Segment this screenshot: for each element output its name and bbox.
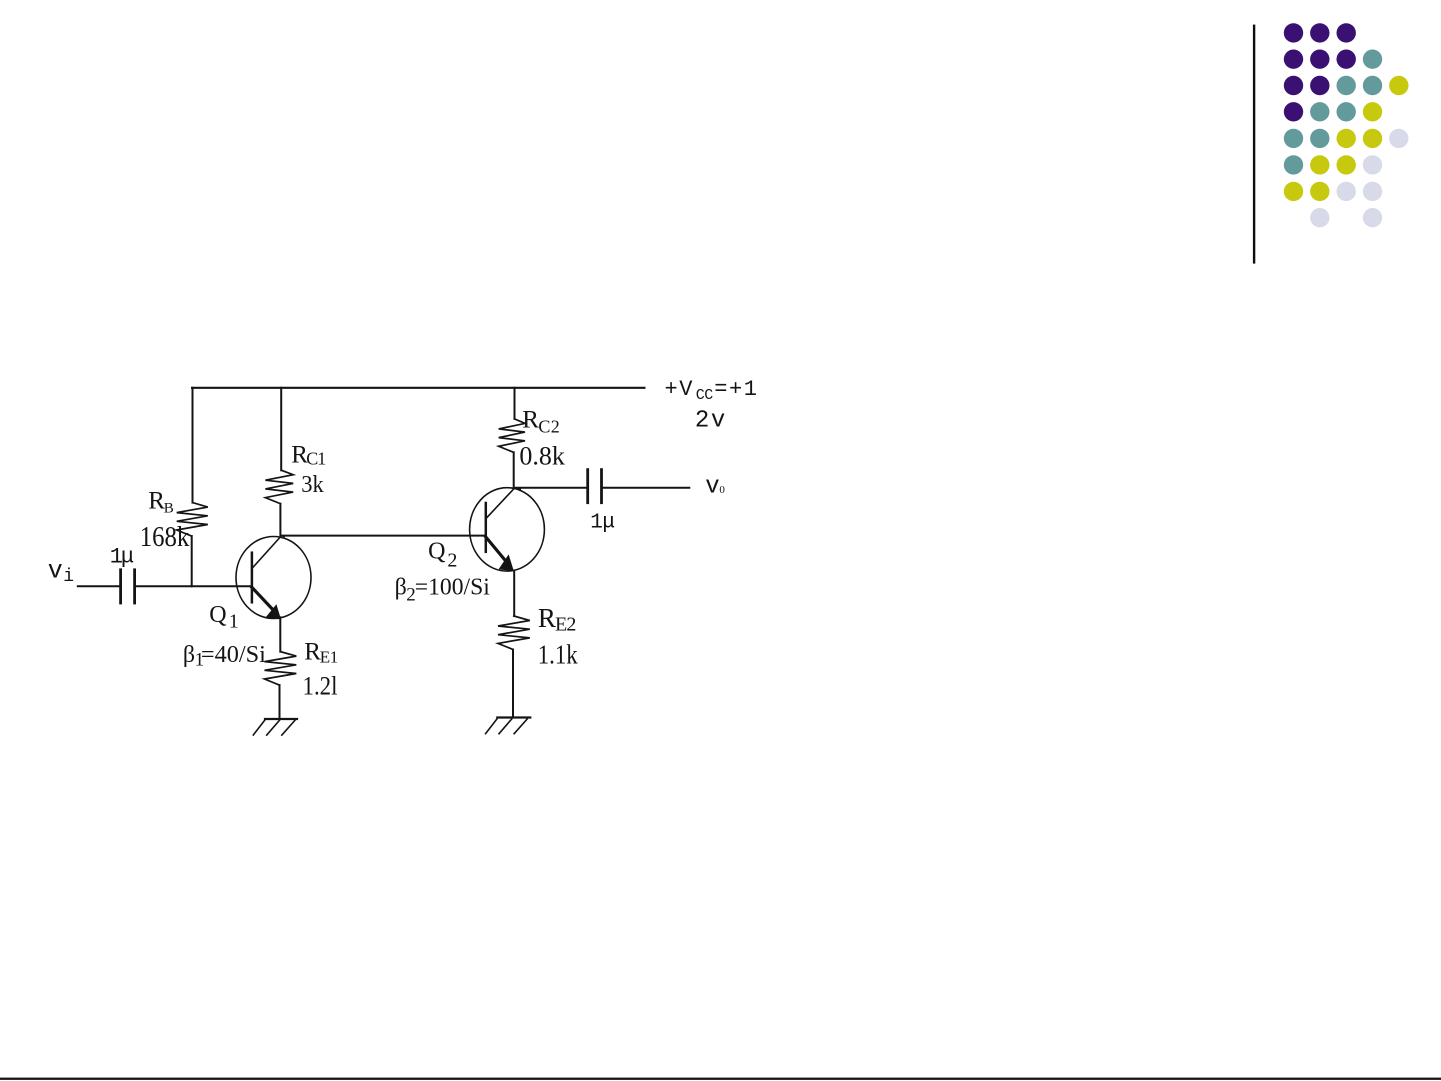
wire RB to base node bbox=[191, 536, 193, 586]
decorative dots row 7 bbox=[1284, 182, 1303, 201]
wire cap to Q1 base bbox=[136, 585, 252, 587]
svg-text:R: R bbox=[522, 407, 539, 434]
decorative dots row 8 bbox=[1310, 208, 1329, 227]
wire Q1 emitter down bbox=[279, 617, 281, 651]
svg-text:=40/Si: =40/Si bbox=[201, 642, 266, 668]
transistor Q1 base bar bbox=[251, 553, 254, 603]
decorative vertical rule (top right) bbox=[1253, 25, 1255, 264]
wire input from vi bbox=[78, 585, 119, 587]
svg-text:B: B bbox=[164, 501, 174, 517]
wire RE2 to ground bbox=[512, 650, 514, 718]
capacitor C2 output 1u left plate bbox=[586, 470, 589, 503]
transistor Q1 emitter arrowhead bbox=[265, 604, 281, 619]
svg-text:v: v bbox=[705, 473, 719, 500]
node junction artifact Q2 collector bbox=[515, 487, 521, 490]
svg-text:Q: Q bbox=[209, 602, 226, 628]
transistor Q2 base bar bbox=[485, 503, 488, 552]
transistor Q2 circle bbox=[470, 488, 545, 571]
svg-text:3k: 3k bbox=[301, 472, 324, 498]
svg-text:R: R bbox=[538, 603, 556, 633]
ground G1 bar bbox=[265, 718, 297, 720]
capacitor C2 output 1u right plate bbox=[600, 470, 603, 503]
svg-text:2v: 2v bbox=[695, 408, 727, 435]
svg-text:1.1k: 1.1k bbox=[538, 639, 578, 669]
svg-text:v: v bbox=[48, 557, 63, 586]
svg-text:C2: C2 bbox=[538, 416, 560, 436]
svg-text:β: β bbox=[395, 575, 407, 601]
transistor Q1 collector stroke bbox=[252, 536, 281, 568]
svg-text:CC: CC bbox=[696, 387, 713, 404]
svg-text:E2: E2 bbox=[555, 614, 575, 636]
wire rail to RC1 bbox=[280, 388, 282, 470]
svg-text:β: β bbox=[183, 642, 195, 668]
transistor Q2 collector stroke bbox=[486, 488, 515, 519]
svg-text:0: 0 bbox=[719, 484, 725, 496]
node junction artifact Q1 collector bbox=[279, 535, 285, 538]
ground G2 hatch 3 bbox=[514, 719, 527, 734]
wire output to v0 bbox=[603, 487, 689, 489]
resistor RE2 1.1k bbox=[498, 616, 530, 650]
svg-text:1μ: 1μ bbox=[590, 512, 614, 535]
wire interstage Q1 collector to Q2 base bbox=[281, 535, 486, 537]
svg-text:1: 1 bbox=[229, 611, 239, 633]
svg-text:R: R bbox=[304, 638, 321, 665]
wire Vcc top rail bbox=[192, 387, 644, 389]
resistor RC1 3k bbox=[265, 470, 293, 504]
decorative dots row 4 bbox=[1284, 102, 1303, 121]
svg-text:E1: E1 bbox=[320, 648, 338, 667]
svg-text:1μ: 1μ bbox=[110, 544, 134, 569]
capacitor C1 input 1u left plate bbox=[119, 570, 122, 603]
svg-text:0.8k: 0.8k bbox=[519, 441, 565, 470]
wire RC1 to Q1 collector node bbox=[279, 504, 281, 536]
decorative dots row 1 bbox=[1284, 23, 1303, 42]
ground G2 bar bbox=[497, 716, 530, 718]
wire Q2 collector node to output cap bbox=[515, 487, 587, 489]
capacitor C1 input 1u right plate bbox=[133, 570, 136, 603]
svg-text:1.2l: 1.2l bbox=[303, 672, 338, 701]
wire rail to RB bbox=[192, 388, 194, 503]
svg-text:168k: 168k bbox=[140, 522, 190, 553]
svg-text:2: 2 bbox=[447, 549, 457, 571]
transistor Q2 emitter stroke bbox=[486, 537, 505, 560]
svg-text:+V: +V bbox=[665, 377, 694, 402]
svg-text:=+1: =+1 bbox=[714, 377, 758, 402]
ground G2 hatch 1 bbox=[486, 719, 497, 734]
resistor RB 168k bbox=[177, 503, 208, 536]
ground G1 hatch 1 bbox=[253, 720, 264, 735]
wire Q2 emitter down bbox=[513, 571, 515, 617]
transistor Q1 circle bbox=[236, 537, 311, 619]
ground G1 hatch 2 bbox=[267, 720, 280, 735]
decorative dots row 5 bbox=[1284, 129, 1303, 148]
svg-text:C1: C1 bbox=[306, 449, 325, 469]
transistor Q2 emitter arrowhead bbox=[499, 554, 514, 571]
resistor RC2 0.8k bbox=[499, 419, 525, 453]
svg-text:i: i bbox=[63, 567, 74, 587]
ground G2 hatch 2 bbox=[499, 719, 512, 734]
resistor RE1 1.2k bbox=[265, 652, 297, 686]
svg-text:=100/Si: =100/Si bbox=[415, 575, 490, 601]
decorative dots row 2 bbox=[1284, 50, 1303, 69]
svg-text:Q: Q bbox=[428, 538, 445, 564]
bottom border line bbox=[0, 1078, 1441, 1080]
transistor Q1 emitter stroke bbox=[252, 587, 272, 608]
decorative dots row 3 bbox=[1284, 76, 1303, 95]
wire rail to RC2 bbox=[514, 388, 516, 419]
wire RC2 to Q2 collector node bbox=[513, 452, 515, 487]
decorative dots row 6 bbox=[1284, 155, 1303, 174]
ground G1 hatch 3 bbox=[282, 720, 295, 735]
wire RE1 to ground bbox=[279, 685, 281, 719]
